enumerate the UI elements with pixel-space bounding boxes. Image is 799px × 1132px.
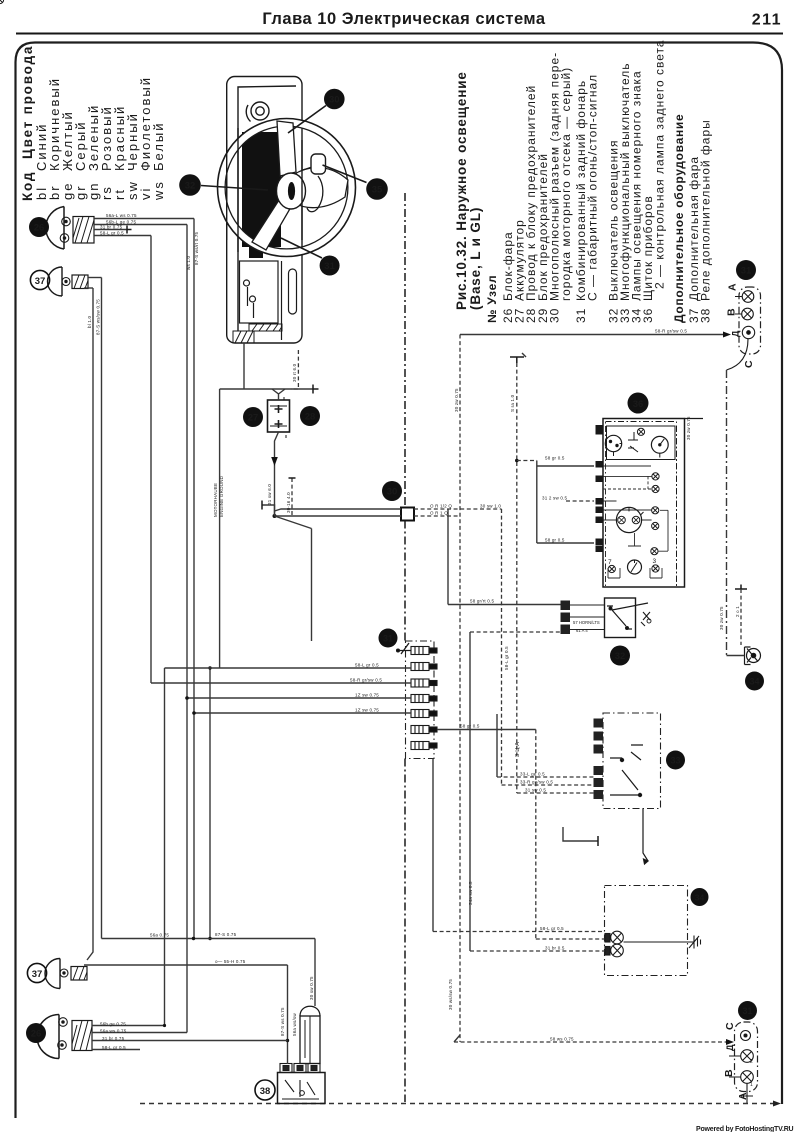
svg-text:30 rt 6.0: 30 rt 6.0 — [292, 363, 297, 382]
black circle 36 — [628, 393, 649, 414]
ladder wire y668 — [165, 667, 412, 669]
dash outline segments over wheel — [227, 128, 302, 252]
svg-text:1: 1 — [750, 1082, 753, 1088]
svg-text:28: 28 — [305, 412, 316, 423]
wire battery plus dashed — [291, 350, 298, 389]
black circle 32 (switch) — [610, 646, 630, 666]
black circle 31 top-right — [736, 260, 756, 280]
svg-text:31: 31 — [324, 261, 335, 272]
wire vertical x434 below stack — [432, 759, 434, 932]
wire vertical x287 to relay pin — [287, 965, 289, 1064]
svg-text:58-L gr 0.5: 58-L gr 0.5 — [504, 646, 509, 670]
right lamp connect — [727, 655, 745, 657]
relay 38 — [278, 1006, 326, 1103]
ground wire dashed — [291, 478, 293, 516]
wire y509 — [275, 509, 402, 511]
wheel spokes — [277, 121, 296, 176]
black circle 34 right — [745, 672, 764, 691]
svg-text:26: 26 — [34, 223, 45, 234]
svg-text:ENGINE GROUND: ENGINE GROUND — [219, 475, 224, 517]
headlamp 26 top-left — [46, 207, 94, 250]
outlined circle 37 top-left — [30, 270, 49, 289]
svg-text:(Base, L и GL): (Base, L и GL) — [468, 207, 483, 310]
wire cluster feed y466 — [537, 465, 594, 467]
svg-text:58 gr/rt 0.5: 58 gr/rt 0.5 — [470, 599, 494, 604]
svg-text:58 gr 0.5: 58 gr 0.5 — [460, 724, 480, 729]
svg-text:56b ge 0.75: 56b ge 0.75 — [100, 1022, 126, 1027]
callout circle 30 (dash) — [288, 89, 345, 133]
dashboard illustration — [227, 77, 302, 344]
wire vertical x536 — [536, 461, 538, 544]
wire vertical x501 dashed — [501, 509, 503, 785]
wire vertical x101 — [101, 278, 103, 939]
svg-text:№ Узел: № Узел — [485, 275, 499, 323]
black circle 26 top-left — [29, 217, 49, 237]
instrument panel dark silhouette — [242, 132, 281, 247]
svg-text:2 o 1: 2 o 1 — [735, 606, 740, 617]
instrument cluster 36 — [0, 0, 703, 587]
headlamp26B wire3 — [92, 1040, 288, 1042]
stalk (item 35) — [303, 167, 312, 170]
svg-text:56a 0.75: 56a 0.75 — [150, 933, 169, 938]
svg-text:городка моторного отсека — сер: городка моторного отсека — серый) — [559, 67, 573, 301]
svg-text:58 gr 0.5: 58 gr 0.5 — [545, 538, 565, 543]
ladder wire y713 — [194, 712, 411, 714]
svg-text:С — габаритный огонь/стоп-сигн: С — габаритный огонь/стоп-сигнал — [586, 74, 600, 301]
svg-text:27: 27 — [248, 413, 259, 424]
junction battery minus — [273, 514, 277, 518]
wire y461 dashed — [517, 460, 537, 462]
svg-text:30 ws/sw 0.75: 30 ws/sw 0.75 — [448, 979, 453, 1010]
wire vertical x93 — [87, 288, 93, 960]
wire battery minus — [275, 432, 279, 516]
black circle 33 — [666, 751, 685, 770]
svg-text:1Z sw 0.75: 1Z sw 0.75 — [355, 708, 379, 713]
svg-text:31 br 0.75: 31 br 0.75 — [102, 1036, 125, 1041]
svg-text:31 sw 0.5: 31 sw 0.5 — [525, 788, 546, 793]
svg-text:38Реле дополнительной фары: 38Реле дополнительной фары — [699, 119, 713, 323]
svg-text:В: В — [726, 308, 738, 316]
svg-text:26: 26 — [31, 1029, 42, 1040]
svg-text:58 gr 0.5: 58 gr 0.5 — [545, 456, 565, 461]
svg-text:58-R gr/sw 0.5: 58-R gr/sw 0.5 — [350, 678, 382, 683]
wire aux37T stub — [84, 287, 93, 289]
svg-text:87-S ws 0.75: 87-S ws 0.75 — [280, 1007, 285, 1036]
svg-text:3: 3 — [653, 558, 657, 565]
dash outer outline — [227, 77, 302, 344]
frame bottom dashed border — [140, 1103, 778, 1105]
dash inner outline — [238, 86, 296, 331]
hatched fuse box under dash — [233, 331, 254, 343]
svg-text:58 ws 0.75: 58 ws 0.75 — [550, 1037, 574, 1042]
wire vertical x194 — [193, 219, 195, 939]
black circle 28 — [300, 406, 320, 426]
black circle 31 bottom-right — [738, 1001, 757, 1020]
svg-text:61 A 4: 61 A 4 — [576, 628, 588, 633]
junction fuse S — [515, 459, 519, 463]
horn pad — [277, 173, 306, 209]
wire vertical x164 — [164, 668, 166, 1026]
svg-text:58-L gr 0.5: 58-L gr 0.5 — [102, 1045, 126, 1050]
wire vertical x311 — [311, 529, 313, 642]
black circle 31 (stack) — [379, 629, 398, 648]
svg-text:o— 55-H 0.75: o— 55-H 0.75 — [215, 959, 246, 964]
svg-text:bl 1.0: bl 1.0 — [87, 315, 92, 328]
svg-text:А: А — [737, 1092, 749, 1100]
multifunction switch 33 — [603, 713, 661, 809]
wire vertical x448 — [447, 509, 449, 605]
connector stack 31 (dash-dot box) — [406, 641, 435, 759]
wire fuse S dashed x517 — [516, 363, 518, 793]
svg-text:30 zw 0.75: 30 zw 0.75 — [454, 388, 459, 412]
svg-text:30-16 4.0: 30-16 4.0 — [286, 492, 291, 513]
wire vertical x536 lower dashed — [535, 730, 537, 940]
wire vertical x460 long dashed — [459, 335, 461, 1043]
aux headlamp 37 bottom-left — [45, 959, 87, 989]
svg-text:С: С — [743, 360, 755, 368]
black circle 34 (lamps) — [691, 888, 709, 906]
svg-text:Powered by FotoHostingTV.RU: Powered by FotoHostingTV.RU — [696, 1126, 794, 1132]
svg-text:37: 37 — [32, 969, 43, 980]
battery 27 — [268, 397, 290, 438]
svg-text:33: 33 — [670, 756, 680, 766]
svg-text:Дополнительное оборудование: Дополнительное оборудование — [672, 114, 686, 323]
wire cluster feed y543 — [537, 542, 594, 544]
right side lamp (tail lamp C) — [745, 647, 761, 665]
black circle 27 — [243, 407, 263, 427]
wire y938 bottom — [102, 938, 316, 940]
wire headlamp26T line4 — [94, 235, 151, 237]
svg-text:1Z sw 0.75: 1Z sw 0.75 — [355, 693, 379, 698]
wire fusebox drop — [243, 343, 245, 389]
switch33 feed y793 — [517, 792, 594, 794]
wire headlamp26T line2 — [94, 224, 187, 226]
wire y509 dashed continuation — [414, 508, 502, 510]
svg-text:58-R gr/sw 0.5: 58-R gr/sw 0.5 — [655, 329, 687, 334]
svg-text:34a sw 0.5: 34a sw 0.5 — [468, 881, 473, 905]
svg-text:2: 2 — [750, 1059, 753, 1065]
right legend: figure caption and parts list (rotated) — [454, 71, 483, 310]
wire vertical x187 — [186, 225, 188, 1033]
light switch 32 — [605, 598, 652, 638]
svg-text:Глава 10 Электрическая систем: Глава 10 Электрическая система — [262, 10, 546, 28]
T terminal right — [735, 585, 747, 590]
wire T to lamp — [740, 589, 742, 645]
svg-text:Код: Код — [20, 171, 35, 201]
svg-text:38: 38 — [260, 1086, 271, 1097]
svg-text:33-R ge/sw 0.5: 33-R ge/sw 0.5 — [520, 780, 553, 785]
outlined circle 37 bottom-left — [27, 963, 46, 982]
svg-text:7: 7 — [608, 559, 612, 566]
svg-text:31 br 0.75: 31 br 0.75 — [100, 225, 123, 230]
multi-pin connector 30 (square) — [401, 508, 414, 521]
svg-text:32: 32 — [185, 181, 196, 192]
svg-text:34: 34 — [695, 892, 705, 902]
callout circle 32 (dash) — [179, 174, 268, 196]
lower console switch panel — [240, 261, 297, 340]
wire battery feed y389 — [220, 388, 313, 390]
svg-text:O R 1 Q: O R 1 Q — [430, 511, 448, 516]
svg-text:57 HORN/LTS: 57 HORN/LTS — [573, 620, 600, 625]
switch33 feed y777 — [497, 776, 594, 778]
ignition ring — [251, 102, 269, 120]
arrow on battery minus — [271, 457, 278, 466]
wire cluster feed y501 dashed — [566, 500, 594, 502]
tail lamp 31 top-right — [739, 287, 761, 354]
wire stack out y729 — [437, 729, 536, 731]
ladder wire y698 — [187, 697, 411, 699]
wire switch feed y604 — [448, 604, 561, 606]
cluster left pins — [596, 425, 604, 552]
wire vertical x151 — [150, 236, 152, 684]
svg-text:З Ц А: З Ц А — [515, 742, 521, 757]
wire y516 dashed continuation — [414, 515, 460, 517]
lamp feed y932 dashed — [433, 931, 605, 933]
left legend: wire color codes (rotated) — [20, 45, 166, 201]
terminal 28 T-end — [313, 385, 319, 394]
callout circle 31 (dash) — [281, 238, 340, 276]
switch33 feed y785 — [502, 784, 594, 786]
wire headlamp26T line3 — [94, 229, 127, 231]
wire vertical x219 — [219, 389, 221, 668]
outlined circle 38 — [255, 1080, 275, 1100]
steering wheel rim — [221, 122, 351, 252]
svg-text:30 zw 0.75: 30 zw 0.75 — [719, 606, 724, 630]
svg-text:30 zw 0.75: 30 zw 0.75 — [686, 416, 691, 440]
svg-text:MOTORHAUBE: MOTORHAUBE — [213, 483, 218, 517]
svg-text:Д: Д — [731, 330, 741, 337]
svg-text:31 sw 6.0: 31 sw 6.0 — [267, 484, 272, 505]
svg-text:33-L ge 0.5: 33-L ge 0.5 — [520, 772, 545, 777]
wire battery plus — [272, 389, 285, 400]
svg-text:56a ws/sw: 56a ws/sw — [292, 1013, 297, 1036]
svg-text:Д: Д — [725, 1044, 735, 1051]
svg-text:Рис.10.32. Наружное освещение: Рис.10.32. Наружное освещение — [454, 71, 469, 310]
svg-text:O R 1/2 Q: O R 1/2 Q — [430, 504, 452, 509]
svg-text:30: 30 — [329, 95, 340, 106]
header rule — [16, 33, 783, 35]
svg-text:30 sw 1.0: 30 sw 1.0 — [480, 504, 501, 509]
svg-text:37: 37 — [35, 276, 46, 287]
lamp feed y951 dashed — [470, 950, 605, 952]
svg-text:31 br 0.5: 31 br 0.5 — [545, 946, 565, 951]
svg-text:58-L gr 0.5: 58-L gr 0.5 — [100, 231, 124, 236]
svg-text:30 sw 0.75: 30 sw 0.75 — [309, 976, 314, 1000]
svg-text:31 2 sw 0.5: 31 2 sw 0.5 — [542, 496, 568, 501]
svg-text:31: 31 — [383, 634, 393, 644]
svg-text:58-L gr 0.5: 58-L gr 0.5 — [540, 926, 564, 931]
svg-text:87-S ws/sw 0.75: 87-S ws/sw 0.75 — [96, 299, 101, 335]
ladder wire y683 — [151, 682, 411, 684]
svg-text:Цвет провода: Цвет провода — [20, 45, 35, 159]
wire vertical x315 to relay dome — [314, 939, 316, 1007]
svg-text:31: 31 — [741, 266, 752, 277]
stub left T — [262, 505, 275, 516]
svg-text:35: 35 — [372, 185, 383, 196]
svg-text:211: 211 — [752, 12, 782, 29]
svg-text:87-S ws/rt 0.75: 87-S ws/rt 0.75 — [194, 231, 199, 265]
callout circle 35 (dash) — [323, 165, 388, 200]
wire headlamp26T line1 — [94, 218, 194, 220]
stray T terminal — [563, 827, 598, 841]
svg-text:С: С — [724, 1022, 736, 1030]
svg-text:56a-L ws 0.75: 56a-L ws 0.75 — [106, 213, 137, 218]
svg-text:В: В — [723, 1069, 735, 1077]
headlamp26B wire2 — [92, 1032, 187, 1034]
tail lamp feed bottom dashed — [454, 1041, 729, 1043]
wire switch32 to x470 dashed — [470, 631, 561, 633]
svg-text:87-S 0.75: 87-S 0.75 — [215, 932, 237, 937]
main harness dash-dot x405 — [404, 193, 406, 507]
headlamp26B wire1 — [92, 1025, 165, 1027]
licence plate lamps 34 — [605, 886, 688, 976]
wire top right feed y334 — [460, 334, 726, 336]
aux headlamp 37 top-left — [48, 267, 88, 296]
wire aux37B — [84, 964, 288, 966]
headlamp 26 bottom-left — [37, 1015, 92, 1059]
svg-text:31: 31 — [742, 1006, 752, 1016]
tail lamp 31 bottom-right — [735, 1022, 758, 1092]
svg-text:S ra 1.0: S ra 1.0 — [510, 394, 515, 412]
svg-text:56a ws 0.75: 56a ws 0.75 — [100, 1029, 127, 1034]
wire vertical x470 — [469, 632, 471, 951]
lamp feed y939 dashed — [536, 938, 605, 940]
right lamp feed dash-dot x726 — [726, 370, 728, 655]
svg-text:2 — контрольная лампа заднего: 2 — контрольная лампа заднего света — [653, 39, 667, 289]
hatched strip under console — [249, 324, 282, 331]
svg-text:58-L gr 0.5: 58-L gr 0.5 — [355, 663, 379, 668]
wire aux37T — [88, 277, 102, 279]
junction dots ladder — [185, 696, 189, 700]
svg-text:ws 1.0: ws 1.0 — [186, 255, 191, 270]
svg-text:34: 34 — [749, 677, 759, 687]
wire y516 — [275, 515, 402, 517]
wire branch x210 — [209, 668, 211, 939]
cluster internal wires — [603, 466, 668, 578]
black circle 26 bottom-left — [26, 1023, 46, 1043]
svg-text:30: 30 — [387, 487, 398, 498]
svg-text:wsБелый: wsБелый — [151, 121, 166, 201]
svg-text:А: А — [727, 283, 739, 291]
fuse S terminal — [510, 357, 524, 363]
svg-text:32: 32 — [615, 651, 626, 662]
headlamp26B wire4 stub — [92, 1049, 140, 1051]
wire diagonal to stack — [275, 516, 312, 529]
svg-text:36: 36 — [633, 399, 644, 410]
wire vertical x497 — [496, 714, 498, 777]
black circle 30 (connector) — [382, 481, 402, 501]
